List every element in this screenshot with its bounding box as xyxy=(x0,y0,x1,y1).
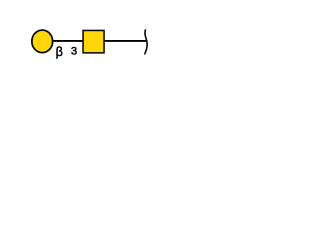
svg-text:3: 3 xyxy=(71,46,77,58)
svg-text:β: β xyxy=(56,45,63,59)
